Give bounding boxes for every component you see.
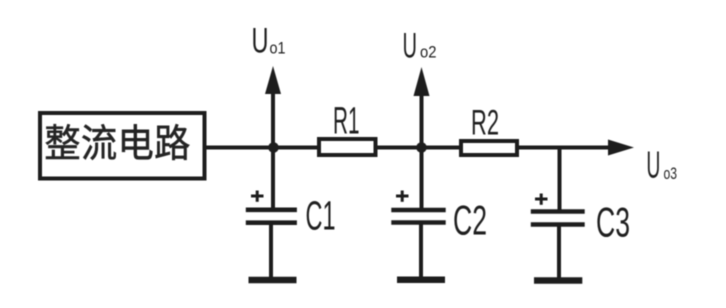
- arrowhead Uo3 output arrow: [608, 140, 634, 156]
- ground bar under C3: [534, 277, 582, 284]
- svg-text:U: U: [403, 26, 418, 65]
- wire C3 bottom stub to ground: [557, 224, 561, 278]
- svg-text:o1: o1: [270, 39, 286, 58]
- wire main horizontal bus from rectifier box to output: [205, 146, 612, 150]
- rectifier box label 整流电路: [46, 124, 190, 160]
- label Uo1: [252, 21, 286, 60]
- label Uo3: [646, 144, 677, 186]
- capacitor C2 plates: [391, 210, 445, 223]
- svg-text:R2: R2: [471, 103, 499, 142]
- label Uo2: [403, 26, 437, 65]
- node A junction dot: [268, 142, 279, 153]
- svg-text:R1: R1: [333, 101, 360, 143]
- svg-text:o3: o3: [664, 164, 678, 183]
- arrowhead Uo2: [414, 67, 430, 96]
- wire Uo1 arrow stem / C1 top stub vertical at node A: [271, 92, 275, 210]
- resistor R2: [461, 141, 517, 155]
- svg-text:C3: C3: [596, 198, 630, 245]
- svg-text:U: U: [646, 144, 660, 186]
- svg-text:o2: o2: [420, 43, 437, 62]
- svg-text:C1: C1: [306, 192, 336, 238]
- node B junction dot: [416, 142, 427, 153]
- polarity plus sign C1: [251, 191, 264, 202]
- wire C2 bottom stub to ground: [419, 223, 423, 278]
- svg-text:U: U: [252, 21, 269, 60]
- rectifier circuit box: [40, 113, 205, 179]
- svg-text:C2: C2: [453, 197, 487, 244]
- ground bar under C2: [397, 276, 445, 283]
- polarity plus sign C2: [396, 191, 409, 202]
- ground bar under C1: [249, 277, 297, 284]
- wire C3 top stub vertical: [558, 148, 562, 212]
- wire C1 bottom stub to ground: [269, 223, 273, 278]
- arrowhead Uo1: [265, 66, 281, 94]
- capacitor C1 plates: [246, 210, 297, 223]
- polarity plus sign C3: [535, 194, 548, 205]
- resistor R1: [319, 139, 376, 155]
- wire Uo2 arrow stem / C2 top stub vertical at node B: [420, 93, 424, 210]
- capacitor C3 plates: [531, 212, 585, 225]
